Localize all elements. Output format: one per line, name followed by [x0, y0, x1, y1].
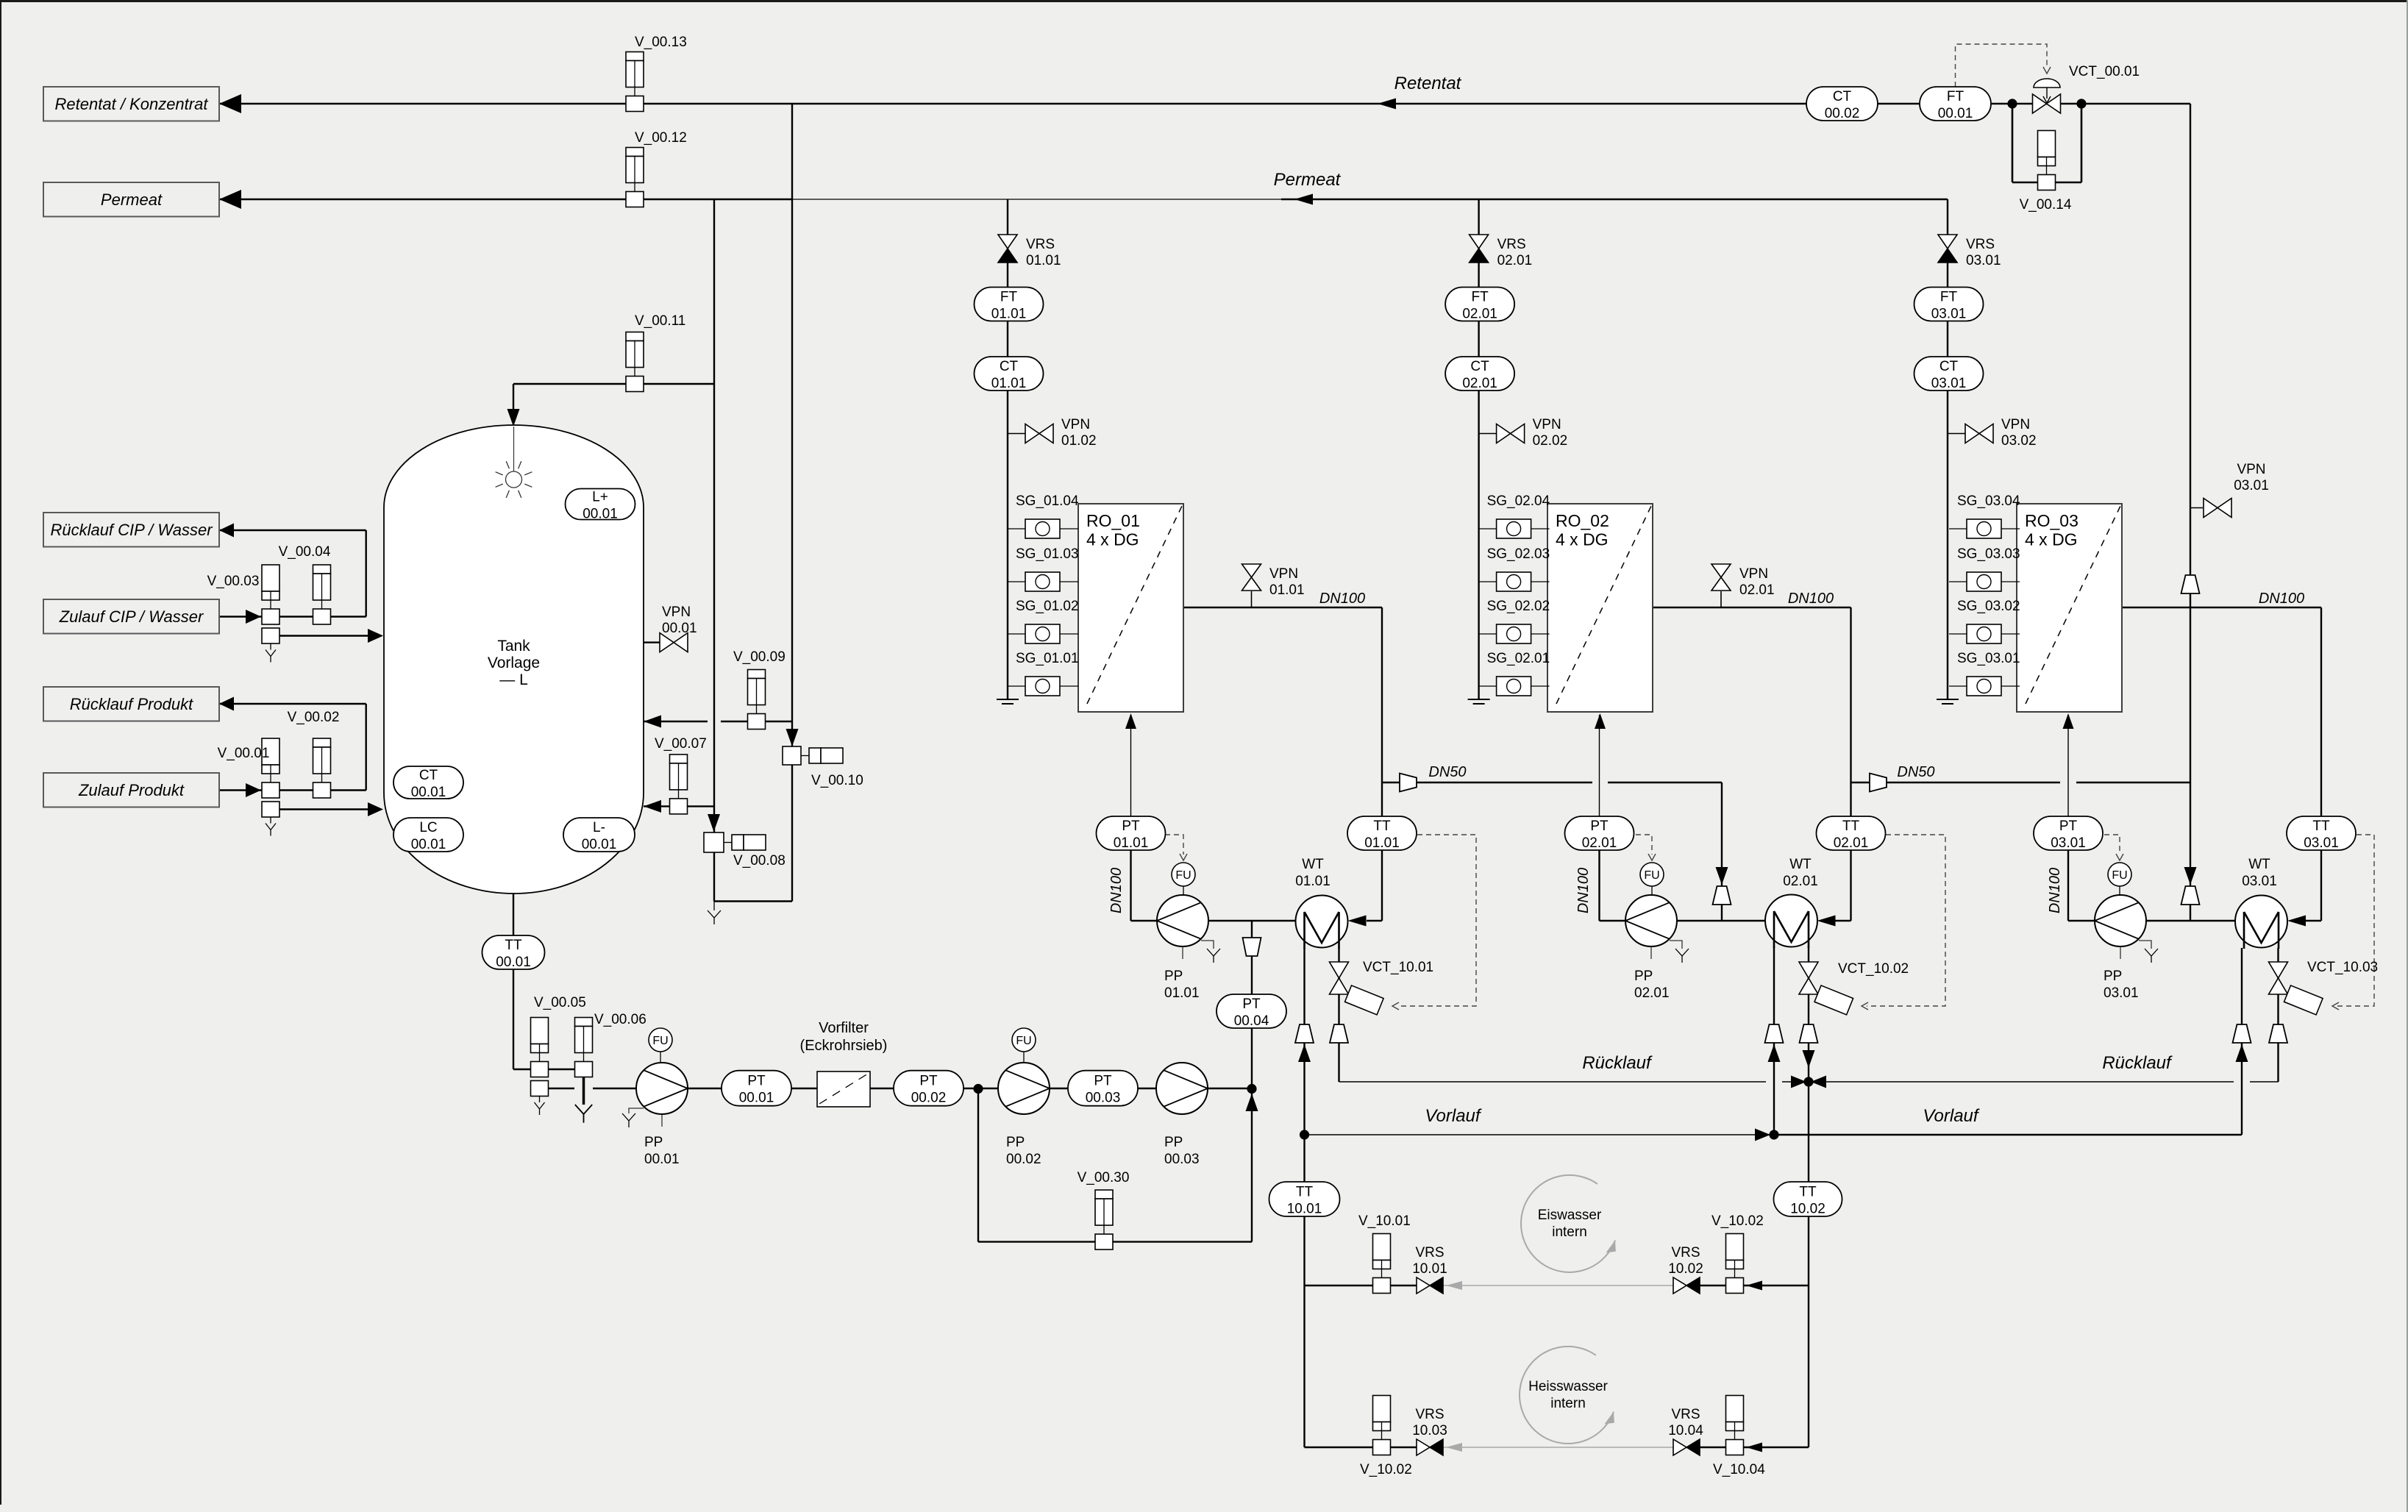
svg-text:01.01: 01.01: [1114, 835, 1149, 851]
svg-text:10.02: 10.02: [1790, 1202, 1825, 1217]
svg-text:Eiswasser: Eiswasser: [1538, 1208, 1602, 1223]
svg-text:PP: PP: [1164, 969, 1183, 984]
svg-text:VCT_10.02: VCT_10.02: [1838, 961, 1909, 977]
svg-text:00.01: 00.01: [662, 621, 697, 636]
svg-text:DN100: DN100: [2259, 591, 2304, 607]
svg-text:Vorlauf: Vorlauf: [1425, 1106, 1481, 1126]
svg-text:VPN: VPN: [2237, 462, 2265, 477]
svg-text:DN100: DN100: [1319, 591, 1365, 607]
svg-text:VRS: VRS: [1671, 1407, 1700, 1422]
svg-text:03.01: 03.01: [1931, 307, 1967, 322]
svg-text:SG_03.01: SG_03.01: [1957, 651, 2020, 666]
svg-text:00.01: 00.01: [583, 507, 618, 522]
svg-text:CT: CT: [1939, 359, 1959, 374]
svg-text:V_00.13: V_00.13: [635, 35, 687, 50]
svg-text:SG_02.02: SG_02.02: [1487, 599, 1550, 614]
svg-text:V_00.11: V_00.11: [635, 313, 685, 329]
svg-text:SG_02.04: SG_02.04: [1487, 493, 1550, 509]
svg-text:00.04: 00.04: [1234, 1013, 1269, 1029]
svg-text:PP: PP: [1164, 1135, 1183, 1150]
svg-text:SG_01.04: SG_01.04: [1016, 493, 1079, 509]
svg-text:DN100: DN100: [2047, 868, 2063, 913]
svg-text:VRS: VRS: [1026, 237, 1055, 252]
svg-text:TT: TT: [505, 938, 522, 953]
svg-text:10.01: 10.01: [1287, 1202, 1322, 1217]
svg-text:00.03: 00.03: [1086, 1091, 1121, 1106]
svg-text:SG_01.02: SG_01.02: [1016, 599, 1079, 614]
svg-text:CT: CT: [419, 768, 438, 783]
svg-text:V_10.01: V_10.01: [1358, 1213, 1411, 1229]
svg-text:01.01: 01.01: [1364, 835, 1400, 851]
svg-text:00.03: 00.03: [1164, 1152, 1200, 1167]
svg-text:VRS: VRS: [1415, 1245, 1444, 1260]
svg-text:4 x DG: 4 x DG: [1086, 530, 1139, 549]
svg-text:RO_02: RO_02: [1556, 511, 1609, 530]
svg-text:PT: PT: [919, 1074, 938, 1089]
svg-text:L+: L+: [592, 490, 608, 505]
svg-text:10.01: 10.01: [1412, 1261, 1447, 1277]
svg-text:SG_03.02: SG_03.02: [1957, 599, 2020, 614]
svg-text:V_10.04: V_10.04: [1713, 1462, 1765, 1477]
svg-text:VCT_10.01: VCT_10.01: [1363, 960, 1433, 975]
svg-text:V_00.10: V_00.10: [811, 773, 863, 788]
svg-text:SG_01.01: SG_01.01: [1016, 651, 1079, 666]
svg-text:VCT_10.03: VCT_10.03: [2307, 960, 2378, 975]
svg-text:03.01: 03.01: [2242, 874, 2277, 889]
svg-text:01.01: 01.01: [1269, 582, 1305, 598]
svg-text:V_00.09: V_00.09: [733, 649, 786, 665]
svg-text:FU: FU: [2112, 869, 2127, 882]
svg-text:PT: PT: [1242, 996, 1261, 1012]
svg-text:00.01: 00.01: [496, 955, 531, 970]
svg-text:VRS: VRS: [1415, 1407, 1444, 1422]
svg-text:Permeat: Permeat: [1274, 170, 1342, 190]
svg-text:FT: FT: [1947, 89, 1964, 104]
svg-text:Rücklauf: Rücklauf: [2102, 1053, 2173, 1073]
svg-text:FU: FU: [652, 1035, 668, 1047]
svg-text:Tank: Tank: [497, 638, 530, 655]
svg-text:03.01: 03.01: [1966, 253, 2001, 268]
svg-text:00.01: 00.01: [739, 1091, 774, 1106]
svg-text:03.01: 03.01: [1931, 376, 1967, 391]
svg-text:PT: PT: [1590, 819, 1609, 834]
svg-text:01.02: 01.02: [1061, 433, 1097, 449]
svg-text:VCT_00.01: VCT_00.01: [2069, 64, 2140, 79]
svg-text:PP: PP: [1006, 1135, 1025, 1150]
svg-text:00.01: 00.01: [1938, 106, 1973, 121]
svg-text:02.01: 02.01: [1739, 582, 1775, 598]
svg-text:PT: PT: [1122, 819, 1140, 834]
svg-text:V_10.02: V_10.02: [1360, 1462, 1412, 1477]
svg-text:TT: TT: [1842, 819, 1860, 834]
svg-text:10.04: 10.04: [1668, 1423, 1703, 1438]
svg-text:Vorlauf: Vorlauf: [1923, 1106, 1979, 1126]
svg-text:SG_02.03: SG_02.03: [1487, 546, 1550, 562]
svg-text:00.01: 00.01: [644, 1152, 680, 1167]
svg-text:00.01: 00.01: [411, 785, 446, 800]
svg-text:intern: intern: [1552, 1224, 1587, 1240]
svg-text:RO_03: RO_03: [2025, 511, 2078, 530]
svg-text:PP: PP: [2104, 969, 2122, 984]
svg-text:Permeat: Permeat: [101, 190, 163, 209]
svg-text:01.01: 01.01: [1164, 985, 1200, 1001]
svg-text:00.01: 00.01: [582, 837, 617, 852]
svg-text:VPN: VPN: [662, 605, 691, 620]
svg-text:VRS: VRS: [1966, 237, 1995, 252]
svg-text:V_00.05: V_00.05: [534, 995, 586, 1010]
svg-text:Zulauf Produkt: Zulauf Produkt: [78, 781, 185, 799]
svg-text:03.01: 03.01: [2104, 985, 2139, 1001]
svg-text:(Eckrohrsieb): (Eckrohrsieb): [800, 1038, 888, 1054]
svg-text:01.01: 01.01: [991, 307, 1027, 322]
svg-text:4 x DG: 4 x DG: [1556, 530, 1609, 549]
svg-text:V_00.14: V_00.14: [2020, 197, 2072, 213]
svg-text:DN50: DN50: [1428, 764, 1466, 780]
svg-text:SG_01.03: SG_01.03: [1016, 546, 1079, 562]
svg-text:VRS: VRS: [1497, 237, 1526, 252]
svg-text:01.01: 01.01: [991, 376, 1027, 391]
svg-text:FT: FT: [1000, 290, 1018, 305]
svg-text:Retentat: Retentat: [1394, 74, 1462, 93]
svg-text:02.01: 02.01: [1497, 253, 1533, 268]
svg-text:FU: FU: [1644, 869, 1659, 882]
svg-text:TT: TT: [1799, 1185, 1817, 1200]
svg-text:SG_03.03: SG_03.03: [1957, 546, 2020, 562]
svg-text:VRS: VRS: [1671, 1245, 1700, 1260]
svg-text:V_00.07: V_00.07: [655, 736, 707, 752]
svg-text:CT: CT: [1470, 359, 1489, 374]
svg-text:V_10.02: V_10.02: [1711, 1213, 1764, 1229]
svg-text:PP: PP: [1634, 969, 1653, 984]
svg-text:03.01: 03.01: [2304, 835, 2339, 851]
svg-text:FU: FU: [1016, 1035, 1031, 1047]
svg-text:10.02: 10.02: [1668, 1261, 1703, 1277]
svg-text:Zulauf CIP / Wasser: Zulauf CIP / Wasser: [59, 607, 204, 626]
svg-text:LC: LC: [419, 820, 437, 835]
svg-text:00.02: 00.02: [1825, 106, 1860, 121]
svg-text:— L: — L: [499, 671, 528, 688]
svg-text:FU: FU: [1175, 869, 1191, 882]
svg-text:WT: WT: [1789, 857, 1812, 872]
svg-text:Vorfilter: Vorfilter: [819, 1020, 869, 1036]
svg-text:VPN: VPN: [1533, 417, 1561, 432]
svg-text:PP: PP: [644, 1135, 663, 1150]
svg-text:V_00.06: V_00.06: [594, 1012, 646, 1027]
svg-text:02.01: 02.01: [1834, 835, 1869, 851]
svg-text:VPN: VPN: [1061, 417, 1090, 432]
svg-text:00.02: 00.02: [1006, 1152, 1041, 1167]
svg-text:V_00.04: V_00.04: [279, 544, 331, 560]
svg-text:V_00.30: V_00.30: [1077, 1170, 1130, 1185]
svg-text:Rücklauf: Rücklauf: [1582, 1053, 1653, 1073]
svg-text:CT: CT: [1833, 89, 1852, 104]
svg-text:Vorlage: Vorlage: [488, 655, 540, 671]
svg-text:Rücklauf CIP / Wasser: Rücklauf CIP / Wasser: [50, 521, 213, 539]
svg-text:SG_02.01: SG_02.01: [1487, 651, 1550, 666]
svg-text:CT: CT: [1000, 359, 1019, 374]
svg-text:WT: WT: [1302, 857, 1324, 872]
svg-text:PT: PT: [2059, 819, 2078, 834]
svg-text:02.01: 02.01: [1634, 985, 1670, 1001]
svg-text:DN100: DN100: [1575, 868, 1592, 913]
svg-text:PT: PT: [1094, 1074, 1112, 1089]
svg-text:V_00.03: V_00.03: [207, 574, 260, 589]
svg-text:Rücklauf Produkt: Rücklauf Produkt: [70, 695, 193, 713]
svg-text:TT: TT: [2312, 819, 2330, 834]
svg-text:4 x DG: 4 x DG: [2025, 530, 2078, 549]
svg-text:Heisswasser: Heisswasser: [1528, 1379, 1608, 1394]
svg-text:DN50: DN50: [1897, 764, 1934, 780]
svg-text:DN100: DN100: [1108, 868, 1125, 913]
svg-text:FT: FT: [1471, 290, 1489, 305]
svg-text:VPN: VPN: [1269, 566, 1298, 582]
svg-text:FT: FT: [1940, 290, 1958, 305]
svg-text:TT: TT: [1296, 1185, 1314, 1200]
svg-text:01.01: 01.01: [1295, 874, 1331, 889]
svg-text:VPN: VPN: [2001, 417, 2030, 432]
svg-text:10.03: 10.03: [1412, 1423, 1447, 1438]
svg-text:intern: intern: [1550, 1396, 1586, 1411]
svg-text:DN100: DN100: [1788, 591, 1834, 607]
svg-text:00.02: 00.02: [911, 1091, 947, 1106]
svg-text:00.01: 00.01: [411, 837, 446, 852]
svg-text:03.01: 03.01: [2051, 835, 2086, 851]
svg-text:V_00.08: V_00.08: [733, 853, 786, 869]
svg-text:02.01: 02.01: [1582, 835, 1617, 851]
svg-text:V_00.02: V_00.02: [288, 710, 340, 725]
svg-text:03.02: 03.02: [2001, 433, 2037, 449]
svg-text:01.01: 01.01: [1026, 253, 1061, 268]
svg-text:L-: L-: [593, 820, 605, 835]
svg-text:Retentat / Konzentrat: Retentat / Konzentrat: [55, 95, 209, 113]
svg-text:PT: PT: [747, 1074, 766, 1089]
svg-text:VPN: VPN: [1739, 566, 1768, 582]
svg-text:02.01: 02.01: [1462, 307, 1497, 322]
svg-text:V_00.01: V_00.01: [218, 746, 270, 761]
svg-text:02.02: 02.02: [1533, 433, 1568, 449]
svg-text:WT: WT: [2248, 857, 2270, 872]
svg-text:V_00.12: V_00.12: [635, 130, 687, 146]
svg-text:02.01: 02.01: [1783, 874, 1818, 889]
svg-text:RO_01: RO_01: [1086, 511, 1140, 530]
svg-text:SG_03.04: SG_03.04: [1957, 493, 2020, 509]
svg-text:03.01: 03.01: [2234, 478, 2269, 493]
svg-text:TT: TT: [1373, 819, 1391, 834]
svg-text:02.01: 02.01: [1462, 376, 1497, 391]
